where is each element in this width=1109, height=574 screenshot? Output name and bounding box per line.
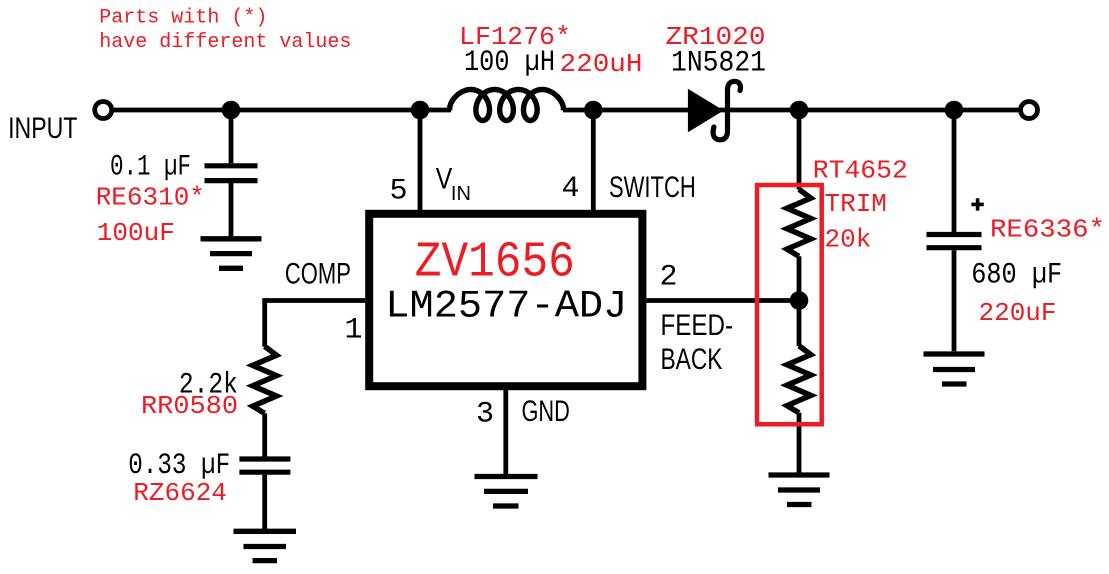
inductor LF1276 coil — [450, 90, 564, 121]
svg-text:RZ6624: RZ6624 — [133, 478, 227, 508]
pin 3 label GND — [476, 395, 570, 431]
junction pin4 — [584, 101, 603, 120]
resistor R2 (TRIM 20k, upper) — [787, 189, 811, 256]
svg-text:RE6310*: RE6310* — [96, 183, 205, 213]
svg-text:COMP: COMP — [285, 257, 351, 290]
pin 2 label FEEDBACK — [660, 261, 734, 376]
wire pin5 — [418, 110, 423, 211]
svg-text:RR0580: RR0580 — [141, 391, 238, 421]
svg-text:2: 2 — [660, 261, 678, 295]
capacitor C1 labels — [96, 151, 205, 249]
svg-text:have different values: have different values — [99, 31, 351, 54]
svg-text:5: 5 — [390, 174, 408, 208]
capacitor C2 labels — [128, 449, 230, 508]
note: red header text — [99, 7, 351, 54]
IC U1 name labels ZV1656 / LM2577-ADJ — [385, 235, 627, 329]
ground G2 — [234, 531, 297, 560]
capacitor C3 polarity + — [971, 198, 983, 210]
trim labels RT4652 / TRIM / 20k — [813, 156, 908, 255]
capacitor C1 wire top — [229, 110, 234, 163]
junction feedback node — [790, 291, 809, 310]
wire pin3 GND — [503, 390, 508, 476]
svg-text:220uF: 220uF — [979, 298, 1057, 328]
svg-text:V: V — [436, 163, 453, 196]
svg-text:100uF: 100uF — [97, 218, 175, 248]
IC U1 LM2577-ADJ body — [369, 214, 642, 386]
wire feedback branch top — [797, 110, 802, 190]
ground G4 — [769, 475, 830, 505]
wire C2 to ground — [262, 475, 267, 531]
diode ZR1020 labels — [666, 22, 767, 81]
svg-text:1N5821: 1N5821 — [671, 47, 766, 81]
junction feedback top — [790, 101, 809, 120]
ground G3 — [475, 477, 538, 507]
svg-text:LM2577-ADJ: LM2577-ADJ — [385, 284, 627, 328]
svg-text:680 µF: 680 µF — [971, 259, 1062, 293]
junction pin5 — [411, 101, 430, 120]
svg-text:RE6336*: RE6336* — [990, 215, 1105, 245]
capacitor C1 wire bottom — [229, 183, 234, 237]
svg-text:3: 3 — [476, 397, 494, 431]
wire R3 to ground — [797, 413, 802, 474]
resistor R3 (lower divider) — [787, 346, 811, 413]
junction output cap — [945, 101, 964, 120]
ground G1 — [201, 239, 262, 268]
svg-text:BACK: BACK — [661, 343, 723, 376]
capacitor C3 labels — [971, 215, 1105, 329]
svg-text:4: 4 — [562, 172, 580, 206]
wire FEEDBACK — [646, 298, 799, 303]
svg-text:INPUT: INPUT — [8, 112, 77, 145]
pin 1 label COMP — [285, 257, 363, 347]
svg-text:1: 1 — [345, 314, 363, 348]
wire input rail left — [113, 108, 451, 113]
capacitor C1 plates — [205, 166, 258, 181]
capacitor C3 plates — [927, 235, 982, 248]
inductor labels — [459, 22, 643, 80]
svg-text:ZV1656: ZV1656 — [415, 235, 575, 292]
capacitor C2 plates — [239, 459, 290, 472]
svg-text:RT4652: RT4652 — [813, 156, 908, 186]
input terminal — [95, 102, 112, 119]
output terminal — [1021, 102, 1038, 119]
wire COMP — [265, 301, 366, 347]
svg-text:GND: GND — [522, 395, 570, 428]
resistor R1 2.2k — [253, 346, 277, 413]
svg-text:IN: IN — [451, 183, 471, 205]
svg-text:Parts with (*): Parts with (*) — [99, 7, 267, 30]
wire pin4 — [591, 110, 596, 211]
svg-text:100 µH: 100 µH — [464, 46, 555, 80]
trim highlight red box — [757, 185, 822, 424]
resistor R1 labels — [141, 369, 238, 422]
junction C1 — [222, 101, 241, 120]
svg-text:SWITCH: SWITCH — [609, 171, 696, 204]
ground G5 — [924, 354, 985, 384]
svg-text:20k: 20k — [825, 225, 872, 255]
pin 4 label — [562, 171, 696, 206]
svg-text:FEED-: FEED- — [661, 309, 734, 342]
svg-text:TRIM: TRIM — [825, 189, 887, 219]
wire output cap top — [952, 110, 957, 232]
pin 5 label — [390, 163, 471, 209]
diode D1 triangle — [688, 89, 724, 133]
svg-text:220uH: 220uH — [560, 49, 643, 79]
diode D1 schottky cathode — [713, 81, 740, 140]
wire rail diode to output — [563, 108, 1019, 113]
wire R1 to C2 — [262, 413, 267, 456]
svg-text:0.1 µF: 0.1 µF — [110, 151, 191, 185]
wire R2 to node — [797, 256, 802, 346]
wire C3 to ground — [952, 250, 957, 351]
